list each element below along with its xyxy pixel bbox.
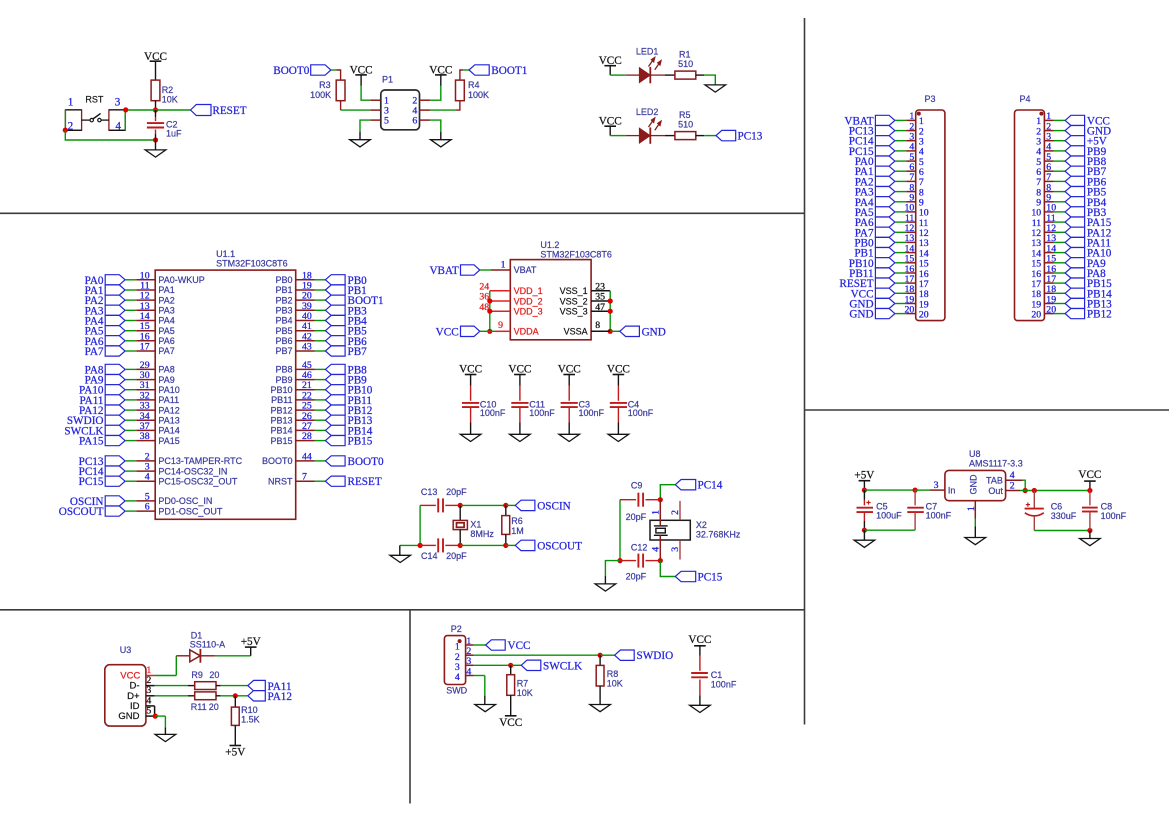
- svg-text:2: 2: [1010, 480, 1015, 491]
- svg-text:20pF: 20pF: [446, 487, 467, 497]
- net flag PC14 (P3 pin 3): [875, 136, 895, 146]
- P2 pin 2 lead: [466, 654, 474, 656]
- P4 pin 1 marker: [1039, 112, 1043, 116]
- svg-text:1M: 1M: [511, 526, 524, 536]
- wire U1.1 pin 14: [125, 320, 136, 322]
- net flag OSCIN (U1.1 pin 5): [105, 496, 125, 506]
- svg-text:PC14: PC14: [698, 480, 723, 492]
- U3 D- pin lead: [146, 685, 155, 687]
- junction OSCOUT at X1: [458, 543, 463, 548]
- svg-text:20: 20: [905, 304, 915, 315]
- U1.2 pin 1 lead: [491, 269, 510, 271]
- svg-text:PB7: PB7: [348, 346, 368, 358]
- svg-text:R11: R11: [191, 702, 207, 712]
- svg-text:VCC: VCC: [499, 717, 522, 729]
- junction +5V input: [862, 488, 867, 493]
- P3 pin 1 marker: [917, 112, 921, 116]
- ground (X1): [390, 555, 411, 562]
- svg-text:+5V: +5V: [225, 747, 245, 759]
- P4 pin 19 lead: [1044, 303, 1053, 305]
- P3 pin 1 lead: [906, 119, 916, 121]
- wire P4 pin 15: [1054, 262, 1066, 264]
- U1.1 pin 38 lead: [136, 440, 155, 442]
- svg-text:C14: C14: [421, 551, 438, 561]
- wire R8 to ground: [599, 686, 601, 705]
- svg-text:1: 1: [501, 259, 506, 270]
- P4 pin 10 lead: [1044, 211, 1053, 213]
- P4 pin 11 lead: [1044, 221, 1053, 223]
- U8 pin 3 lead: [930, 489, 945, 491]
- svg-text:R4: R4: [468, 80, 480, 90]
- wire PC14 to C9: [660, 485, 675, 500]
- U1.1 pin 12 lead: [136, 299, 155, 301]
- push button RST pins 1-2 box: [65, 110, 81, 130]
- wire X1 to R6 (OSCOUT): [460, 544, 506, 546]
- junction SWCLK at R7: [508, 663, 513, 668]
- P3 pin 20 lead: [906, 313, 916, 315]
- net flag PA12: [248, 691, 265, 701]
- net flag PB5 (P4 pin 8): [1065, 187, 1085, 197]
- U1.2 pin 36 lead (VDD_2): [490, 300, 511, 302]
- U1.1 pin 4 lead: [136, 480, 155, 482]
- wire P3 pin 15: [895, 262, 906, 264]
- U1.1 pin 37 lead: [136, 429, 155, 431]
- U1.1 pin 10 lead: [136, 279, 155, 281]
- section divider horizontal top-left: [0, 212, 805, 214]
- wire VCC to output rail: [1089, 481, 1091, 490]
- junction Out at TAB: [1023, 488, 1028, 493]
- net flag PB14 (U1.1 pin 27): [325, 425, 345, 435]
- P3 pin 10 lead: [906, 211, 916, 213]
- wire to X1 top: [459, 505, 461, 520]
- U3 VCC pin lead: [146, 675, 155, 677]
- net flag PA3 (U1.1 pin 13): [105, 305, 125, 315]
- U1.1 pin 14 lead: [136, 320, 155, 322]
- net flag PB12 (U1.1 pin 25): [325, 405, 345, 415]
- section divider horizontal bottom-left: [0, 609, 805, 611]
- U1.2 pin 23 lead (VSS_1): [591, 290, 610, 292]
- wire P4 pin 7: [1054, 180, 1066, 182]
- svg-text:R10: R10: [241, 705, 258, 715]
- net flag PB3 (U1.1 pin 39): [325, 305, 345, 315]
- wire U1.1 pin 25: [315, 409, 326, 411]
- svg-text:PA7: PA7: [85, 346, 104, 358]
- P4 pin 4 lead: [1044, 150, 1053, 152]
- wire P3 pin 8: [895, 191, 906, 193]
- connector P1 body: [381, 90, 420, 130]
- wire VCC to R2: [155, 61, 157, 80]
- wire R5 to PC13 flag: [696, 135, 704, 137]
- svg-text:SWD: SWD: [446, 685, 467, 695]
- +5V power symbol (R10): [230, 745, 242, 747]
- wire C2 to ground: [155, 140, 157, 150]
- crystal X2 body: [650, 520, 690, 540]
- wire TAB to Out: [1023, 480, 1026, 490]
- U1.1 pin 45 lead: [296, 368, 315, 370]
- wire VCC to C3: [568, 375, 570, 386]
- svg-text:GND: GND: [118, 711, 139, 722]
- svg-text:BOOT1: BOOT1: [491, 65, 527, 77]
- X2 crystal element: [654, 525, 668, 527]
- wire U8 GND to ground: [974, 519, 976, 527]
- net flag PB11 (P3 pin 16): [875, 268, 895, 278]
- wire P3 pin 10: [895, 211, 906, 213]
- net flag PA7 (P3 pin 12): [875, 227, 895, 237]
- wire P4 pin 4: [1054, 150, 1066, 152]
- net flag RESET: [191, 105, 212, 116]
- net flag OSCIN: [515, 500, 535, 510]
- junction C9 right: [658, 497, 663, 502]
- net flag PB3 (P4 pin 10): [1065, 207, 1085, 217]
- net flag SWDIO (U1.1 pin 34): [105, 415, 125, 425]
- P3 pin 3 lead: [906, 140, 916, 142]
- wire +5V to U8 In: [863, 481, 865, 490]
- svg-text:PC13-TAMPER-RTC: PC13-TAMPER-RTC: [158, 456, 242, 466]
- net flag SWCLK: [521, 660, 541, 670]
- svg-text:VSS_1: VSS_1: [560, 286, 588, 296]
- svg-text:PA8: PA8: [158, 365, 174, 375]
- svg-text:PB7: PB7: [275, 346, 292, 356]
- P1 pin 4 lead: [420, 109, 431, 111]
- net flag BOOT0 (U1.1 pin 44): [325, 456, 345, 466]
- net flag RESET (P3 pin 17): [875, 278, 895, 288]
- wire R1 to ground: [696, 74, 704, 76]
- P4 pin 9 lead: [1044, 201, 1053, 203]
- net flag PA15 (U1.1 pin 38): [105, 436, 125, 446]
- U1.1 pin 43 lead: [296, 350, 315, 352]
- svg-text:GND: GND: [849, 309, 873, 321]
- P3 pin 5 lead: [906, 160, 916, 162]
- P3 pin 7 lead: [906, 180, 916, 182]
- junction RST pin 3: [123, 107, 128, 112]
- svg-text:20pF: 20pF: [626, 572, 647, 582]
- net flag PA0 (P3 pin 5): [875, 156, 895, 166]
- svg-text:VDD_1: VDD_1: [514, 286, 543, 296]
- svg-text:LED2: LED2: [636, 107, 659, 117]
- connector P2 body: [444, 636, 465, 685]
- svg-text:PA11: PA11: [158, 395, 179, 405]
- wire R11 to PA12 flag: [216, 695, 221, 697]
- svg-text:PD1-OSC_OUT: PD1-OSC_OUT: [158, 506, 223, 516]
- svg-text:1: 1: [68, 97, 74, 109]
- svg-text:AMS1117-3.3: AMS1117-3.3: [969, 458, 1023, 468]
- net flag PB13 (P4 pin 19): [1065, 298, 1085, 308]
- net flag GND (P3 pin 19): [875, 298, 895, 308]
- svg-text:R9: R9: [191, 670, 203, 680]
- net flag PA11 (U1.1 pin 32): [105, 395, 125, 405]
- X2 pin 1 lead: [659, 500, 661, 526]
- ground: [145, 150, 166, 157]
- diode D1: [190, 650, 200, 662]
- wire P4 pin 12: [1054, 231, 1066, 233]
- wire RST pin2 to ground net: [65, 130, 155, 140]
- svg-text:C13: C13: [421, 487, 438, 497]
- net flag PA11: [248, 680, 265, 690]
- net flag PC15 (P3 pin 4): [875, 146, 895, 156]
- P3 pin 8 lead: [906, 191, 916, 193]
- net flag PC13 (P3 pin 2): [875, 126, 895, 136]
- capacitor C10: [462, 402, 479, 404]
- net flag PA8 (U1.1 pin 29): [105, 364, 125, 374]
- net flag PA4 (P3 pin 9): [875, 197, 895, 207]
- svg-text:1uF: 1uF: [166, 129, 182, 139]
- svg-text:PA4: PA4: [158, 316, 174, 326]
- wire U1.1 pin 20: [315, 299, 326, 301]
- svg-text:R6: R6: [511, 516, 523, 526]
- ground (X2): [595, 584, 616, 591]
- net flag PB6 (P4 pin 7): [1065, 176, 1085, 186]
- net flag PB8 (P4 pin 5): [1065, 156, 1085, 166]
- svg-text:100K: 100K: [310, 90, 331, 100]
- junction OSCIN at R6: [503, 503, 508, 508]
- net flag PB1 (U1.1 pin 19): [325, 285, 345, 295]
- wire U1.1 pin 2: [125, 460, 136, 462]
- P1 pin 2 lead: [420, 99, 431, 101]
- P3 pin 17 lead: [906, 282, 916, 284]
- junction SWDIO at R8: [598, 653, 603, 658]
- junction VDD_3: [487, 309, 492, 314]
- svg-text:VCC: VCC: [1078, 469, 1101, 481]
- wire R6 to OSCOUT flag: [506, 544, 515, 546]
- wire U1.1 pin 43: [315, 350, 326, 352]
- net flag PA10 (U1.1 pin 31): [105, 385, 125, 395]
- svg-text:3: 3: [670, 547, 681, 552]
- U1.1 pin 13 lead: [136, 309, 155, 311]
- net flag SWCLK (U1.1 pin 37): [105, 425, 125, 435]
- svg-text:20: 20: [1046, 304, 1056, 315]
- ground (C5): [854, 540, 875, 547]
- wire output rail: [1020, 490, 1090, 492]
- wire U1.1 pin 28: [315, 440, 326, 442]
- svg-text:3: 3: [115, 97, 121, 109]
- resistor R6: [505, 505, 507, 515]
- ground (U8): [965, 538, 986, 545]
- wire VCC to VDDA: [480, 330, 495, 332]
- ground (C1): [690, 705, 711, 712]
- U1.1 pin 17 lead: [136, 350, 155, 352]
- wire ID to GND pin: [154, 706, 156, 716]
- net flag PA4 (U1.1 pin 14): [105, 315, 125, 325]
- net flag PB10 (P3 pin 15): [875, 258, 895, 268]
- wire U1.1 pin 32: [125, 399, 136, 401]
- svg-text:PC14-OSC32_IN: PC14-OSC32_IN: [158, 466, 227, 476]
- junction C6 top: [1032, 488, 1037, 493]
- wire C4 to ground: [617, 407, 619, 422]
- section divider horizontal right: [805, 409, 1169, 411]
- svg-text:PA5: PA5: [158, 326, 174, 336]
- svg-text:C9: C9: [631, 480, 643, 490]
- ground (C8): [1080, 539, 1101, 546]
- svg-text:RESET: RESET: [212, 105, 246, 117]
- U1.1 pin 18 lead: [296, 279, 315, 281]
- net flag PB0 (U1.1 pin 18): [325, 275, 345, 285]
- net flag PA2 (U1.1 pin 12): [105, 295, 125, 305]
- wire VCC to C10: [470, 375, 472, 386]
- U1.1 pin 27 lead: [296, 429, 315, 431]
- net flag PC13 (U1.1 pin 2): [105, 456, 125, 466]
- wire R4 to BOOT1 flag: [460, 70, 463, 80]
- svg-text:100nF: 100nF: [1101, 511, 1127, 521]
- wire P3 pin 17: [895, 282, 906, 284]
- svg-text:P3: P3: [925, 94, 936, 104]
- svg-text:100nF: 100nF: [628, 408, 654, 418]
- regulator U8 body: [945, 470, 1006, 500]
- svg-text:PB1: PB1: [275, 285, 292, 295]
- P3 pin 6 lead: [906, 170, 916, 172]
- svg-text:20: 20: [209, 702, 219, 712]
- svg-text:20: 20: [209, 670, 219, 680]
- U1.1 pin 5 lead: [136, 500, 155, 502]
- resistor R10: [234, 696, 236, 707]
- svg-text:PB9: PB9: [275, 375, 292, 385]
- wire P3 pin 13: [895, 241, 906, 243]
- wire R8 to SWDIO flag: [600, 654, 615, 656]
- svg-text:44: 44: [302, 451, 312, 462]
- U1.1 pin 46 lead: [296, 379, 315, 381]
- svg-text:LED1: LED1: [636, 46, 659, 56]
- net flag PC14 (U1.1 pin 3): [105, 466, 125, 476]
- svg-text:In: In: [948, 486, 956, 496]
- net flag PA15 (P4 pin 11): [1065, 217, 1085, 227]
- net flag PA2 (P3 pin 7): [875, 176, 895, 186]
- wire VCC to P1 pin 2: [440, 75, 442, 86]
- net flag PA1 (P3 pin 6): [875, 166, 895, 176]
- wire P3 pin 2: [895, 130, 906, 132]
- svg-text:PB4: PB4: [275, 316, 292, 326]
- svg-text:10K: 10K: [517, 688, 533, 698]
- svg-text:R3: R3: [319, 80, 331, 90]
- net flag OSCOUT: [515, 540, 535, 550]
- svg-text:PA9: PA9: [158, 375, 174, 385]
- wire P4 pin 14: [1054, 252, 1066, 254]
- svg-text:2: 2: [68, 121, 74, 133]
- wire VSSA to GND flag: [610, 330, 620, 332]
- svg-text:PA2: PA2: [158, 295, 174, 305]
- net flag PA5 (U1.1 pin 15): [105, 326, 125, 336]
- P3 pin 19 lead: [906, 303, 916, 305]
- svg-text:PB10: PB10: [270, 385, 292, 395]
- svg-text:VCC: VCC: [508, 640, 531, 652]
- ground (C10): [460, 434, 481, 441]
- U1.2 pin 8 lead (VSSA): [591, 330, 610, 332]
- svg-text:VSSA: VSSA: [564, 327, 588, 337]
- P4 pin 14 lead: [1044, 252, 1053, 254]
- connector P4 body: [1015, 110, 1045, 321]
- U3 ID pin lead: [146, 705, 155, 707]
- svg-text:PB12: PB12: [1087, 309, 1112, 321]
- svg-text:VSS_2: VSS_2: [560, 296, 588, 306]
- wire U1.1 pin 11: [125, 289, 136, 291]
- IC U1.1 body: [155, 270, 296, 519]
- svg-text:STM32F103C8T6: STM32F103C8T6: [216, 259, 288, 269]
- capacitor C13: [420, 504, 436, 506]
- svg-text:PB11: PB11: [271, 395, 292, 405]
- wire D- to R9: [155, 685, 188, 687]
- wire P4 pin 19: [1054, 303, 1066, 305]
- U3 GND pin lead: [146, 715, 155, 717]
- wire C11 to ground: [519, 407, 521, 422]
- USB connector U3 body: [105, 665, 146, 726]
- ground (LED1): [705, 85, 726, 92]
- svg-text:32.768KHz: 32.768KHz: [696, 529, 741, 539]
- wire R10 to +5V: [234, 725, 236, 745]
- resistor R2: [151, 80, 160, 101]
- wire P4 pin 2: [1054, 130, 1066, 132]
- wire U1.1 pin 18: [315, 279, 326, 281]
- P4 pin 18 lead: [1044, 292, 1053, 294]
- net flag PB9 (P4 pin 4): [1065, 146, 1085, 156]
- net flag PB4 (P4 pin 9): [1065, 197, 1085, 207]
- U1.1 pin 30 lead: [136, 379, 155, 381]
- P1 pin 6 lead: [420, 119, 431, 121]
- svg-text:OSCOUT: OSCOUT: [537, 540, 582, 552]
- svg-text:4: 4: [455, 672, 460, 683]
- svg-text:RST: RST: [85, 94, 104, 104]
- svg-text:4: 4: [466, 666, 471, 677]
- P3 pin 16 lead: [906, 272, 916, 274]
- net flag PB8 (U1.1 pin 45): [325, 364, 345, 374]
- wire VCC to P1 pin 1: [360, 75, 362, 86]
- net flag PB6 (U1.1 pin 42): [325, 336, 345, 346]
- P3 pin 4 lead: [906, 150, 916, 152]
- wire P4 pin 17: [1054, 282, 1066, 284]
- net flag +5V (P4 pin 3): [1065, 136, 1085, 146]
- svg-text:4: 4: [1010, 470, 1015, 481]
- wire C10 to ground: [470, 407, 472, 422]
- junction C12 right: [658, 558, 663, 563]
- U1.2 pin 24 lead (VDD_1): [490, 290, 511, 292]
- junction C8 bottom: [1087, 528, 1092, 533]
- svg-text:C12: C12: [631, 542, 648, 552]
- wire P4 pin 11: [1054, 221, 1066, 223]
- P2 pin 4 lead: [466, 675, 474, 677]
- net flag GND (U1.2): [620, 326, 640, 336]
- wire P3 pin 9: [895, 201, 906, 203]
- P4 pin 8 lead: [1044, 191, 1053, 193]
- junction VDDA: [487, 329, 492, 334]
- svg-text:BOOT0: BOOT0: [262, 456, 293, 466]
- svg-text:8MHz: 8MHz: [470, 529, 494, 539]
- svg-text:P4: P4: [1020, 94, 1031, 104]
- wire R3 to P1 pin 3: [340, 101, 342, 110]
- net flag PC13 (LED2): [716, 130, 736, 140]
- P4 pin 1 lead: [1044, 119, 1053, 121]
- wire U1.1 pin 10: [125, 279, 136, 281]
- resistor R3: [336, 80, 345, 101]
- wire P1 pin 6 to ground: [430, 120, 441, 132]
- connector P3 body: [916, 110, 945, 321]
- svg-text:PB0: PB0: [275, 275, 292, 285]
- svg-text:PA13: PA13: [158, 415, 179, 425]
- wire P1 pin 4 to R4: [430, 109, 456, 111]
- wire P4 pin 16: [1054, 272, 1066, 274]
- wire X1 bottom: [459, 530, 461, 546]
- net flag PA6 (P3 pin 11): [875, 217, 895, 227]
- junction VSS_3: [608, 309, 613, 314]
- wire P3 pin 7: [895, 180, 906, 182]
- wire VSS bus: [609, 291, 611, 332]
- U1.1 pin 7 lead: [296, 480, 315, 482]
- net flag PA7 (U1.1 pin 17): [105, 346, 125, 356]
- wire P2 pin 3 to SWCLK: [474, 664, 511, 666]
- P2 pin 1 lead: [466, 644, 474, 646]
- net flag BOOT1: [469, 65, 489, 75]
- U1.1 pin 41 lead: [296, 330, 315, 332]
- wire P3 pin 1: [895, 119, 906, 121]
- wire P4 pin 9: [1054, 201, 1066, 203]
- U1.1 pin 20 lead: [296, 299, 315, 301]
- svg-text:1: 1: [966, 506, 977, 511]
